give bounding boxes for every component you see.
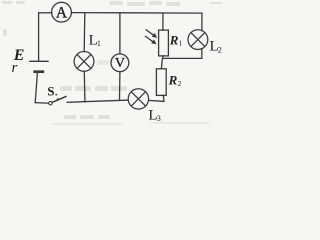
svg-text:A: A [56,5,68,22]
voltmeter V [111,54,129,72]
wire L3 right to R2 [149,100,164,101]
wire top rail right segment [71,12,202,15]
switch S label dot [55,94,57,96]
wire R1 branch top [162,13,164,30]
wire V branch bottom [119,72,121,101]
wire R1 bottom to junction [162,56,164,59]
wire V branch top [119,13,121,54]
wire junction down to R2 [161,58,162,68]
svg-text:R: R [168,72,178,87]
svg-text:2: 2 [178,79,182,88]
light arrow 1 [146,29,158,38]
switch S contact dot [57,98,59,100]
svg-text:r: r [12,60,18,76]
switch S lever [52,96,67,102]
battery E long plate [29,60,49,62]
svg-text:3: 3 [157,113,161,123]
lamp L1 [74,52,94,72]
wire L1 branch top [83,13,86,52]
wire bottom rail left of switch [35,102,49,105]
svg-text:S: S [47,84,54,99]
switch S pivot [49,102,52,105]
wire bottom rail switch to L3 [67,100,128,102]
lamp L2 [188,30,208,50]
light arrow 2 [145,36,157,45]
battery E short plate [33,70,44,73]
svg-text:V: V [115,56,125,71]
wire junction horizontal R1 to L2 [163,57,202,59]
wire top rail left segment [39,12,52,14]
wire left rail (battery top lead) [38,13,40,61]
wire L1 branch bottom [83,71,86,102]
photoresistor R1 [159,30,169,56]
wire L2 branch top [201,13,203,31]
svg-text:R: R [169,32,179,47]
svg-text:1: 1 [97,38,101,48]
wire battery bottom lead [35,73,37,103]
svg-text:1: 1 [179,39,183,48]
svg-text:2: 2 [218,44,222,54]
wire L2 branch bottom [201,49,203,59]
resistor R2 [156,69,166,96]
background scan noise [2,1,222,125]
ammeter A [52,2,72,22]
lamp L3 [128,89,148,109]
wire R2 bottom lead [162,95,165,101]
